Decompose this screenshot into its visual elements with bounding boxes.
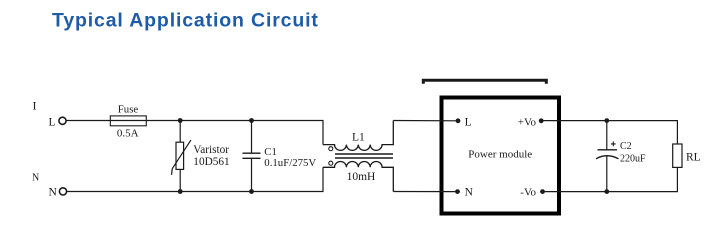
wire varistor node to C1 node — [180, 120, 251, 122]
capacitor C1 plate top — [243, 152, 261, 154]
svg-text:RL: RL — [686, 152, 701, 164]
capacitor C2 lead bottom — [606, 156, 608, 192]
wire choke bottom to module pin N — [393, 191, 457, 193]
wire L terminal to fuse to varistor node — [66, 120, 180, 122]
capacitor C2 lead top — [606, 121, 608, 150]
inductor L1 top winding — [323, 121, 393, 151]
node junction dot C2 bottom — [604, 189, 609, 194]
svg-text:N: N — [465, 186, 474, 198]
varistor RV diagonal stroke — [172, 140, 191, 175]
node junction dot C1 top — [249, 118, 254, 123]
svg-text:C2: C2 — [620, 141, 632, 152]
svg-text:220uF: 220uF — [620, 153, 646, 164]
svg-text:N: N — [49, 186, 58, 198]
svg-text:Fuse: Fuse — [118, 104, 139, 116]
svg-text:Varistor: Varistor — [193, 144, 229, 156]
node L terminal circle — [59, 117, 66, 124]
fuse F body — [110, 116, 146, 126]
svg-text:+Vo: +Vo — [518, 116, 537, 128]
capacitor C2 plus sign — [611, 142, 616, 147]
inductor L1 bottom winding — [323, 162, 393, 192]
capacitor C1 plate bottom — [243, 157, 261, 159]
resistor RL body — [673, 144, 682, 167]
wire N terminal to choke bottom — [67, 167, 323, 191]
wire +Vo to RL corner — [541, 121, 677, 144]
node N terminal circle — [59, 188, 66, 195]
svg-text:10D561: 10D561 — [193, 156, 229, 168]
inductor L1 core line lower — [335, 157, 393, 159]
node junction dot varistor bottom — [178, 189, 183, 194]
inductor L1 top phasing dot — [329, 147, 333, 151]
svg-text:10mH: 10mH — [347, 171, 376, 183]
capacitor C2 curved plate — [596, 156, 619, 159]
svg-text:Power module: Power module — [468, 149, 532, 161]
capacitor C2 plate top — [598, 149, 618, 151]
svg-text:0.1uF/275V: 0.1uF/275V — [264, 157, 316, 169]
capacitor C1 lead bottom — [251, 158, 253, 191]
pin +Vo dot — [539, 118, 544, 123]
pin L dot — [456, 118, 461, 123]
varistor RV lead bottom — [179, 169, 181, 191]
power module U1 body — [442, 98, 560, 214]
svg-text:L1: L1 — [352, 131, 365, 143]
svg-text:L: L — [49, 116, 56, 128]
inductor L1 bottom phasing dot — [329, 161, 333, 165]
svg-text:-Vo: -Vo — [520, 187, 536, 199]
capacitor C1 lead top — [251, 121, 253, 154]
pin N dot — [455, 189, 460, 194]
varistor RV body — [176, 142, 184, 169]
inductor L1 core line upper — [335, 153, 393, 155]
wire -Vo to RL bottom corner — [543, 167, 678, 191]
wire choke top to module pin L — [393, 120, 458, 122]
svg-text:L: L — [465, 116, 472, 128]
heatsink bar above module — [423, 80, 546, 84]
node junction dot C2 top — [604, 118, 609, 123]
svg-text:Typical Application Circuit: Typical Application Circuit — [52, 10, 319, 32]
svg-text:0.5A: 0.5A — [117, 127, 139, 139]
node junction dot varistor top — [178, 118, 183, 123]
svg-text:I: I — [33, 99, 37, 113]
pin -Vo dot — [540, 189, 545, 194]
svg-text:N: N — [32, 172, 39, 183]
node junction dot C1 bottom — [249, 189, 254, 194]
varistor RV lead top — [179, 121, 181, 143]
wire C1 node to choke corner — [252, 121, 324, 145]
